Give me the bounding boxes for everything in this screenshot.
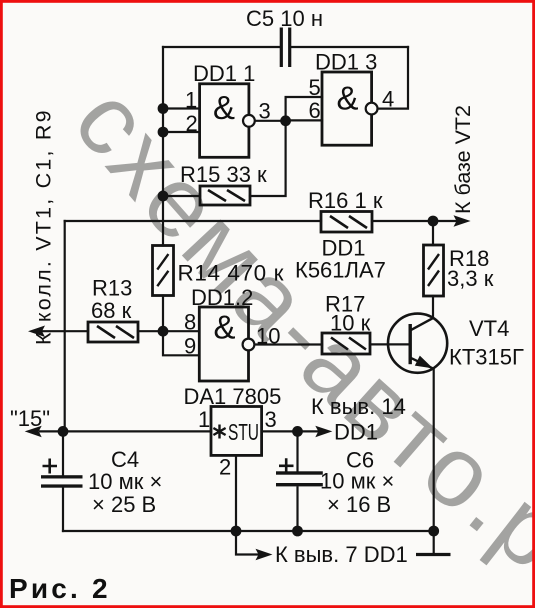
resistor R15 xyxy=(180,162,267,205)
svg-text:10 мк ×: 10 мк × xyxy=(320,469,394,494)
svg-text:&: & xyxy=(213,309,235,346)
wire: node B to DD1.3 pin6 xyxy=(286,119,322,121)
wire: R18 to VT4 collector xyxy=(432,296,434,318)
wire: left rail x=163 lower + pin9 branch xyxy=(163,296,199,356)
resistor R17 xyxy=(322,292,371,355)
gate DD1.2 xyxy=(184,285,280,381)
node: pin2/left rail xyxy=(158,127,169,138)
wire: R15 left lead xyxy=(163,195,200,197)
arrow: "15" input (left) xyxy=(10,406,50,437)
svg-text:3: 3 xyxy=(259,99,271,124)
wire: main rail y=221 left section xyxy=(65,220,321,222)
svg-text:4: 4 xyxy=(382,87,394,112)
capacitor C6 xyxy=(276,448,394,518)
ground bar at K vyv 7 DD1 xyxy=(416,553,451,556)
wire: main rail right of R16 to arrow xyxy=(372,220,456,222)
svg-text:К561ЛА7: К561ЛА7 xyxy=(295,258,386,283)
svg-text:10 мк ×: 10 мк × xyxy=(88,469,162,494)
wire: DD1.3 output pin4 up to top rail xyxy=(377,47,408,109)
node: emitter / bottom rail / stub xyxy=(428,526,439,537)
node: DA1 out / C6 xyxy=(292,426,303,437)
svg-text:5: 5 xyxy=(309,75,321,100)
svg-text:"15": "15" xyxy=(10,406,50,431)
svg-text:DD1 1: DD1 1 xyxy=(193,61,255,86)
node: R13 / pin8 / pin9 / left rail xyxy=(158,326,169,337)
wire: C4 top lead xyxy=(62,431,64,475)
svg-text:STU: STU xyxy=(228,419,259,445)
svg-text:&: & xyxy=(336,80,358,117)
svg-text:R16 1 к: R16 1 к xyxy=(308,188,383,213)
resistor R13 xyxy=(88,276,138,343)
gate DD1.1 xyxy=(185,61,271,157)
svg-text:8: 8 xyxy=(184,310,196,335)
svg-text:1: 1 xyxy=(185,88,197,113)
resistor R18 (vertical) xyxy=(424,245,494,296)
svg-text:1: 1 xyxy=(198,407,210,432)
wire: DD1.1 pin1 xyxy=(163,107,200,109)
node: C6 / bottom rail xyxy=(292,526,303,537)
wire: R15 right lead up to node B xyxy=(250,121,286,196)
svg-text:DA1 7805: DA1 7805 xyxy=(184,384,282,409)
svg-text:× 16 В: × 16 В xyxy=(327,492,391,517)
transistor VT4 xyxy=(388,314,524,373)
svg-text:К базе VT2: К базе VT2 xyxy=(451,105,475,214)
wire: C4 bottom lead xyxy=(62,488,64,531)
arrow: to coll VT1,C1,R9 (left) xyxy=(28,108,56,345)
wire: DA1 pin3 output to arrow xyxy=(262,430,318,432)
svg-text:× 25 В: × 25 В xyxy=(92,492,156,517)
svg-text:R14 470 к: R14 470 к xyxy=(178,261,285,286)
svg-text:DD1: DD1 xyxy=(334,420,378,445)
wire: left rail x=64.7 down to "15" node xyxy=(64,221,66,431)
node C: rail / R18 / arrow to VT2 xyxy=(428,216,439,227)
node: "15" / C4 / rail xyxy=(58,426,69,437)
node B: DD1.1 out / pins 5,6 / R15 xyxy=(280,115,291,126)
wire: bottom rail xyxy=(63,530,434,532)
svg-text:C5 10 н: C5 10 н xyxy=(246,6,323,31)
svg-text:DD1 3: DD1 3 xyxy=(315,50,377,75)
svg-text:6: 6 xyxy=(309,98,321,123)
svg-text:К выв. 14: К выв. 14 xyxy=(311,394,406,419)
capacitor C4 xyxy=(41,447,162,517)
arrow: to pin 7 DD1 (bottom) xyxy=(256,542,408,567)
svg-text:10 к: 10 к xyxy=(330,311,371,336)
svg-text:&: & xyxy=(213,89,235,126)
gate DD1.3 xyxy=(309,50,395,146)
arrow: to base VT2 (right) xyxy=(451,105,475,227)
wire: R17 to VT4 base xyxy=(370,343,410,345)
wire: R13 right lead to DD1.2 pin8 xyxy=(138,330,199,332)
wire: R13 lead from arrow xyxy=(42,330,88,332)
resistor R14 (vertical, in series with left rail) xyxy=(153,246,285,296)
capacitor C5 xyxy=(246,6,323,67)
wire: "15" wire to DA1 pin1 xyxy=(40,430,211,432)
wire: node B up to DD1.3 pin5 xyxy=(286,97,322,121)
svg-text:2: 2 xyxy=(219,455,231,480)
wire: right stub below rail xyxy=(433,531,435,555)
svg-text:68 к: 68 к xyxy=(91,298,132,323)
wire: DD1.1 pin2 xyxy=(163,131,200,133)
svg-text:R13: R13 xyxy=(92,276,132,301)
svg-text:К колл. VT1, C1, R9: К колл. VT1, C1, R9 xyxy=(32,108,56,345)
wire: DD1.2 output to R17 xyxy=(254,343,322,345)
wire: DD1.1 output to node B xyxy=(255,120,286,122)
svg-text:R15 33 к: R15 33 к xyxy=(180,162,267,187)
svg-text:3,3 к: 3,3 к xyxy=(447,266,494,291)
wire: top rail right of C5 xyxy=(291,46,408,48)
node: R15/left rail xyxy=(158,191,169,202)
IC label DD1 К561ЛА7 xyxy=(295,236,386,283)
svg-text:DD1.2: DD1.2 xyxy=(191,285,253,310)
svg-text:2: 2 xyxy=(186,111,198,136)
svg-text:3: 3 xyxy=(265,407,277,432)
svg-text:К выв. 7 DD1: К выв. 7 DD1 xyxy=(275,542,408,567)
wire: C6 bottom lead xyxy=(296,487,298,531)
svg-text:9: 9 xyxy=(184,334,196,359)
node: DA1 pin2 / bottom rail xyxy=(231,526,242,537)
node: pin1/left rail xyxy=(158,103,169,114)
svg-text:10: 10 xyxy=(256,324,280,349)
resistor R16 xyxy=(308,188,383,232)
arrow: to pin 14 DD1 (right) xyxy=(311,394,406,445)
wire: node C down to R18 xyxy=(432,221,434,245)
wire: DA1 pin2 down through rail to arrow K vyv 7 xyxy=(236,455,258,554)
svg-text:КТ315Г: КТ315Г xyxy=(449,345,524,370)
voltage regulator DA1 7805 xyxy=(184,384,282,480)
wire: left rail x=163 upper xyxy=(162,47,164,246)
wire: VT4 emitter down to bottom rail xyxy=(433,369,435,532)
svg-text:Рис. 2: Рис. 2 xyxy=(9,573,111,604)
svg-text:VT4: VT4 xyxy=(469,316,509,341)
wire: C6 top lead xyxy=(296,431,298,471)
wire: top rail left of C5 xyxy=(163,46,280,48)
